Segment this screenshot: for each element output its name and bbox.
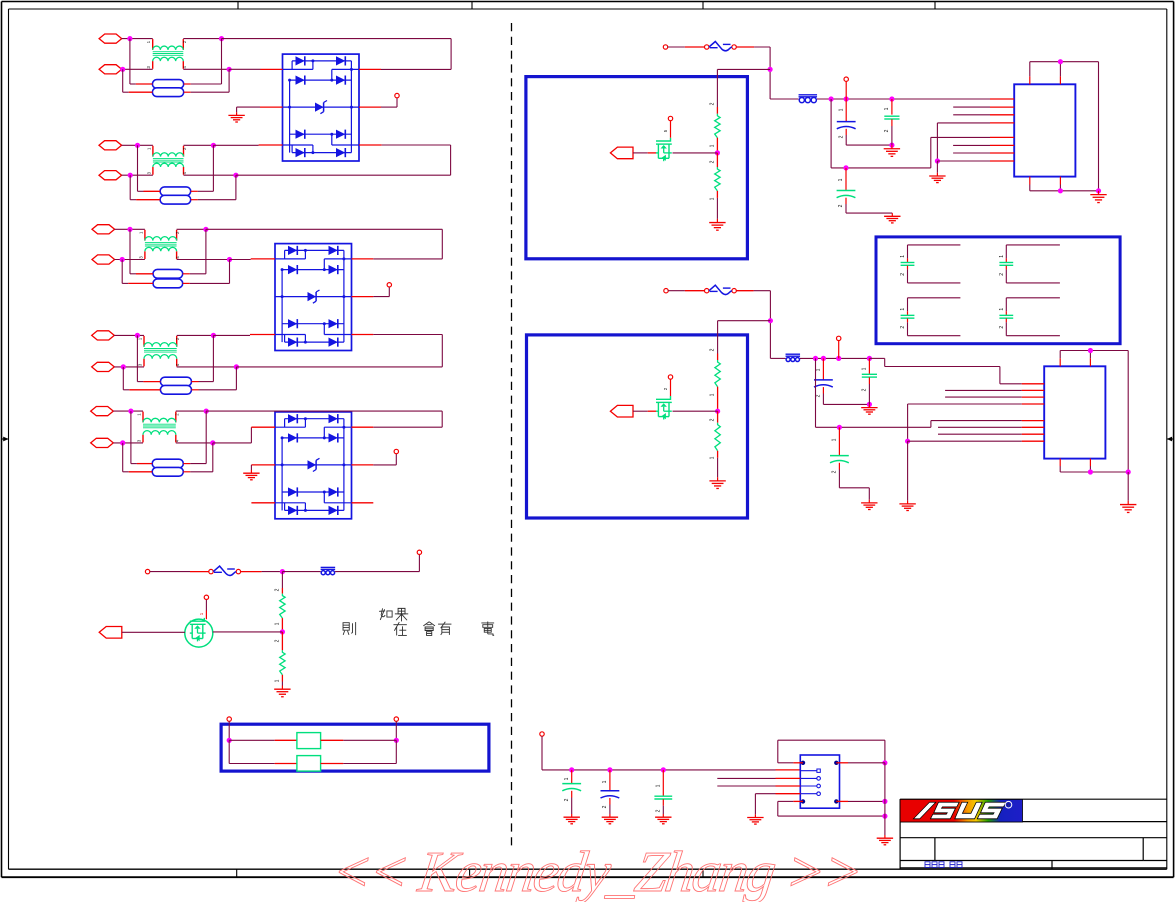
svg-text:2: 2	[838, 204, 844, 207]
svg-text:1: 1	[275, 679, 281, 682]
svg-text:1: 1	[710, 144, 716, 147]
svg-text:2: 2	[710, 102, 716, 105]
svg-text:1: 1	[900, 255, 906, 258]
svg-text:2: 2	[602, 805, 608, 808]
svg-text:2: 2	[710, 418, 716, 421]
svg-text:R: R	[1007, 803, 1010, 808]
svg-text:1: 1	[839, 108, 845, 111]
svg-text:1: 1	[816, 368, 822, 371]
svg-text:2: 2	[900, 326, 906, 329]
svg-text:1: 1	[900, 308, 906, 311]
svg-text:2: 2	[564, 798, 570, 801]
svg-text:<< Kennedy_Zhang >>: << Kennedy_Zhang >>	[328, 839, 867, 902]
svg-text:2: 2	[710, 348, 716, 351]
svg-text:1: 1	[275, 622, 281, 625]
svg-text:2: 2	[839, 135, 845, 138]
svg-text:2: 2	[862, 388, 868, 391]
svg-text:1: 1	[602, 780, 608, 783]
svg-text:1: 1	[884, 107, 890, 110]
svg-text:2: 2	[900, 273, 906, 276]
svg-text:2: 2	[710, 160, 716, 163]
svg-text:1: 1	[710, 456, 716, 459]
svg-text:2: 2	[999, 326, 1005, 329]
svg-text:2: 2	[884, 129, 890, 132]
svg-text:2: 2	[656, 809, 662, 812]
svg-text:2: 2	[275, 639, 281, 642]
svg-text:2: 2	[999, 273, 1005, 276]
svg-text:1: 1	[656, 784, 662, 787]
svg-text:1: 1	[832, 438, 838, 441]
svg-text:2: 2	[816, 394, 822, 397]
svg-text:2: 2	[275, 588, 281, 591]
svg-text:1: 1	[710, 197, 716, 200]
svg-text:1: 1	[710, 393, 716, 396]
svg-text:1: 1	[862, 367, 868, 370]
svg-text:1: 1	[999, 255, 1005, 258]
svg-text:2: 2	[832, 470, 838, 473]
svg-text:1: 1	[564, 777, 570, 780]
svg-text:1: 1	[838, 178, 844, 181]
svg-text:1: 1	[999, 308, 1005, 311]
